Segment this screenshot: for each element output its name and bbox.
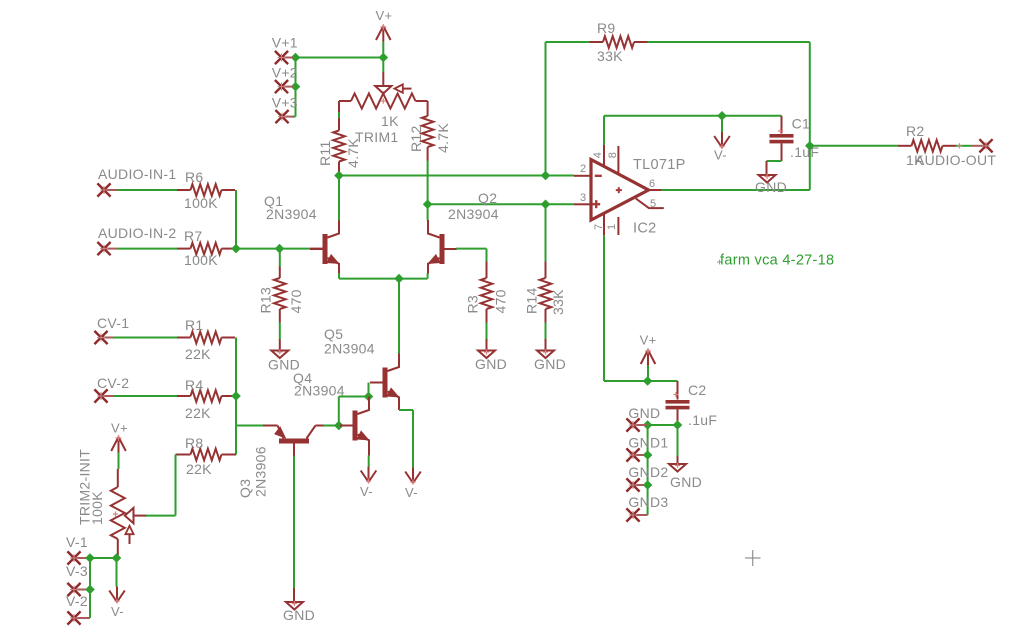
svg-text:CV-1: CV-1 [97,315,129,331]
svg-text:33K: 33K [550,289,566,315]
resistor R14 33K [545,204,547,261]
svg-text:8: 8 [607,152,619,158]
wire cv to Q3 emitter [236,425,263,427]
junction feedback pin2 [541,171,551,181]
wire audio-in-1 [117,189,177,191]
svg-text:R3: R3 [465,295,481,314]
wire base bus to Q1 [236,248,310,250]
svg-text:R1: R1 [185,317,204,333]
resistor R13 470 [279,249,281,267]
wire output to R2 [810,145,898,147]
svg-text:V-: V- [111,604,124,619]
junction Q5 base Q4 collector [364,392,374,402]
net pin V-2 [74,617,90,619]
svg-text:TL071P: TL071P [633,157,686,173]
junction trim2 bottom [112,553,122,563]
junction Q4 base node [334,421,344,431]
svg-text:7: 7 [593,224,605,230]
wire wiper to R8 [146,515,176,517]
svg-text:GND: GND [475,356,507,372]
wire mirror vertical [338,397,340,426]
svg-text:GND1: GND1 [628,435,668,451]
net pin AUDIO-IN-1 [104,189,117,191]
supply V+ arrow top [382,26,384,42]
wire Q5 collector drop [398,279,400,354]
svg-text:2N3904: 2N3904 [294,383,345,399]
svg-text:V-: V- [405,485,418,500]
resistor R4 22K [177,395,191,397]
svg-text:6: 6 [649,178,655,190]
svg-text:V+: V+ [376,8,393,23]
wire R12 to Q2 collector [427,161,429,221]
svg-text:2N3904: 2N3904 [324,341,375,357]
svg-text:R9: R9 [597,20,616,36]
svg-text:2N3904: 2N3904 [448,206,499,222]
net pin GND2 [633,484,647,486]
capacitor C2 .1uF [677,381,679,400]
supply V+ above C2 [647,350,649,366]
op-amp pin6 output stub [649,189,662,191]
wire gnd bus horizontal [648,424,678,426]
resistor R12 4.7K [422,116,434,147]
junction V+2 [291,82,301,92]
wire op-amp output [661,189,810,191]
net pin V+2 [282,86,294,88]
svg-text:GND2: GND2 [628,464,668,480]
supply V- below TRIM2 [116,587,118,603]
svg-text:TRIM1: TRIM1 [355,129,399,145]
svg-text:AUDIO-OUT: AUDIO-OUT [915,152,996,168]
wire V- C1 rail [604,115,782,117]
trimmer TRIM2 adjust arrow [129,534,131,544]
junction v-1 [85,553,95,563]
svg-text:4: 4 [592,152,604,158]
junction pin3 R14 [541,199,551,209]
svg-text:V-: V- [714,148,727,163]
net pin V+1 [282,57,294,59]
junction emitter bus Q5 [394,274,404,284]
wire R2 to AUDIO-OUT [956,145,971,147]
svg-text:22K: 22K [186,461,212,477]
trimmer TRIM1 adjust arrow [403,88,412,90]
wire V+ to TRIM1 wiper [382,42,384,58]
net pin V-1 [74,557,87,559]
wire V+ bus horizontal [288,57,383,59]
svg-text:IC2: IC2 [633,221,656,237]
resistor R1 22K [177,337,191,339]
ground below R14 [537,351,554,359]
junction R11 node [334,171,344,181]
wire cv vertical bus [235,338,237,455]
supply V- near C1 [721,116,723,132]
svg-text:GND: GND [755,179,787,195]
resistor R9 33K [546,41,590,43]
resistor R11 4.7K [338,112,340,118]
transistor Q2 2N3904 [440,234,445,264]
svg-text:CV-2: CV-2 [97,375,129,391]
junction gnd bus [643,420,653,430]
svg-text:22K: 22K [185,346,211,362]
wire Q3 collector to Q4 base [324,425,339,427]
net pin CV-2 [101,395,114,397]
op-amp IC2 TL071P [591,160,649,221]
wire cv-1 [114,337,177,339]
svg-text:farm vca 4-27-18: farm vca 4-27-18 [720,253,834,269]
junction output to R2 [805,141,815,151]
wire audio-in-2 [117,248,177,250]
net pin GND [633,424,647,426]
svg-text:470: 470 [492,289,508,313]
svg-text:R6: R6 [185,169,204,185]
svg-text:V+2: V+2 [272,64,298,80]
svg-text:AUDIO-IN-2: AUDIO-IN-2 [98,225,176,241]
wire gnd bus vertical [647,425,649,515]
svg-text:2: 2 [580,163,586,175]
wire Q1 collector to op-amp pin2 [339,175,574,177]
svg-text:470: 470 [288,289,304,313]
svg-text:V+: V+ [111,421,128,436]
svg-text:2N3906: 2N3906 [253,446,269,497]
svg-text:3: 3 [580,192,586,204]
svg-text:R13: R13 [258,287,274,314]
wire v-1 row [87,557,117,559]
net pin AUDIO-OUT [971,145,986,147]
capacitor C1 .1uF [781,116,783,134]
resistor R2 1K [898,145,912,147]
svg-text:22K: 22K [185,405,211,421]
net pin V+3 [282,116,294,118]
net pin V-3 [74,589,90,591]
wire R9 feedback drop [545,42,547,176]
wire R6 corner down [235,190,237,249]
svg-text:100K: 100K [184,195,218,211]
junction R6 R7 node [231,244,241,254]
ground below C1 [759,175,776,183]
svg-text:1K: 1K [381,113,399,129]
svg-text:GND: GND [670,474,702,490]
wire C2 to ground [677,425,679,456]
svg-text:V-: V- [360,484,373,499]
wire Q2 base to R3 [456,248,487,250]
wire pin4 up [603,116,605,145]
ground below R13 [271,351,288,359]
supply V- below Q4 [368,467,370,483]
junction Q2 collector node [423,199,433,209]
wire mirror horizontal [339,396,369,398]
ground below R3 [478,351,495,359]
wire pin7 down [603,235,605,381]
svg-text:33K: 33K [597,48,623,64]
resistor R3 470 [486,262,488,279]
crosshair mark [745,557,761,559]
junction V- rail [717,111,727,121]
net pin CV-1 [101,337,114,339]
op-amp pin4 line [603,145,605,167]
ground below C2 [669,464,686,472]
svg-text:GND3: GND3 [628,494,668,510]
op-amp pin1 line [617,217,619,235]
svg-text:V+1: V+1 [272,35,298,51]
svg-text:R4: R4 [185,377,204,393]
wire Q2 collector to op-amp pin3 [428,203,574,205]
junction C2 bottom [673,420,683,430]
op-amp pin7 line [603,213,605,235]
junction V+ rail [643,376,653,386]
net pin AUDIO-IN-2 [104,248,117,250]
net pin GND3 [633,514,647,516]
transistor Q5 2N3904 [383,368,388,398]
svg-text:1: 1 [606,224,618,230]
wire emitter bus [339,278,428,280]
svg-text:R12: R12 [408,125,424,152]
svg-text:R2: R2 [906,123,925,139]
wire Q4 emitter to V- [368,450,370,456]
svg-text:V-2: V-2 [66,593,88,609]
resistor R6 100K [177,189,191,191]
resistor R8 22K [176,454,191,456]
wire feedback right rail [809,42,811,190]
transistor Q3 2N3906 [263,425,278,427]
svg-text:4.7K: 4.7K [345,138,361,168]
wire Q5 base [368,383,370,397]
wire v bus down [89,558,91,618]
svg-text:GND: GND [534,356,566,372]
text farm vca 4-27-18 [717,261,722,263]
svg-text:100K: 100K [89,491,105,525]
supply V- below Q5 [412,468,414,484]
junction gnd2 [643,480,653,490]
svg-text:V-3: V-3 [66,563,88,579]
wire Q5 emitter to V- [398,407,400,410]
svg-text:C1: C1 [792,116,811,132]
supply V+ at TRIM2 [118,437,120,453]
svg-text:Q3: Q3 [237,479,253,498]
svg-text:100K: 100K [184,252,218,268]
resistor R7 100K [177,248,191,250]
svg-text:R7: R7 [184,228,203,244]
svg-text:Q2: Q2 [478,190,497,206]
svg-text:4.7K: 4.7K [435,123,451,153]
transistor Q1 2N3904 [310,248,323,250]
svg-text:2N3904: 2N3904 [266,206,317,222]
svg-text:GND: GND [283,607,315,623]
wire V+ rail horizontal [604,380,678,382]
ground below Q3 [286,602,303,610]
svg-text:R8: R8 [185,435,204,451]
junction R13 node [275,244,285,254]
svg-text:R14: R14 [524,287,540,314]
wire Q2 emitter down [427,273,429,278]
junction v-3 [85,585,95,595]
wire trim2 to V- [116,558,118,587]
svg-text:V-1: V-1 [66,534,88,550]
wire Q1 collector [338,176,340,221]
op-amp pin5 line [636,199,664,209]
svg-text:R11: R11 [317,140,333,166]
junction gnd1 [643,450,653,460]
svg-text:C2: C2 [688,382,707,398]
net pin GND1 [633,454,647,456]
wire cv-2 [114,395,177,397]
wire Q3 base to ground [293,456,295,588]
junction V+ bus [378,53,388,63]
wire Q1 emitter down [338,273,340,278]
svg-text:V+: V+ [640,333,657,348]
svg-text:5: 5 [650,198,656,210]
junction V+1 [291,53,301,63]
trimmer TRIM2-INIT 100K [117,469,119,487]
svg-text:.1uF: .1uF [688,412,717,428]
transistor Q4 2N3904 [340,425,353,427]
trimmer TRIM1 1K [382,58,384,73]
op-amp pin8 line [617,146,619,174]
wire V+ bus vertical [295,58,297,117]
svg-text:GND: GND [628,405,660,421]
junction R4 node [231,391,241,401]
svg-text:V+3: V+3 [272,94,298,110]
svg-text:AUDIO-IN-1: AUDIO-IN-1 [98,166,176,182]
